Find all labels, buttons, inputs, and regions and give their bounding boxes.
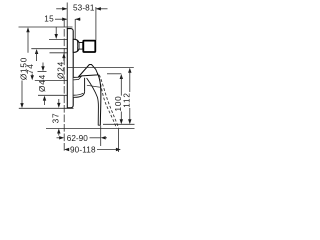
node E11 sleeve bottom ext bbox=[50, 52, 68, 54]
lever blade tip bbox=[98, 124, 100, 126]
escutcheon plate side view bbox=[67, 29, 73, 108]
node E6 cap bottom ext bbox=[38, 94, 67, 96]
dim D150 bbox=[20, 27, 30, 108]
node E1 plate top ext bbox=[19, 26, 73, 28]
dim 53-81 bbox=[56, 3, 107, 12]
svg-text:Ø44: Ø44 bbox=[38, 74, 47, 92]
svg-text:15: 15 bbox=[44, 15, 54, 24]
cap junction edge bbox=[73, 65, 89, 78]
svg-text:53-81: 53-81 bbox=[73, 3, 95, 12]
lever blade white fill bbox=[86, 78, 101, 125]
node E3 lever top ext bbox=[67, 67, 133, 69]
cap right edge bbox=[84, 78, 86, 92]
lever blade left edge bbox=[87, 78, 99, 125]
svg-text:Ø24: Ø24 bbox=[56, 61, 65, 79]
node E7 plate bottom ext bbox=[19, 107, 74, 109]
dim 15 bbox=[44, 15, 80, 24]
cap junction inner line bbox=[73, 69, 88, 80]
node V4 connector end ext bbox=[95, 7, 97, 41]
svg-text:90-118: 90-118 bbox=[70, 146, 96, 155]
node V1 wall reference dashed bbox=[63, 20, 65, 153]
lever knob bbox=[78, 65, 97, 78]
dim 37 bbox=[52, 99, 61, 136]
node L9 closed lever tip ext bbox=[103, 123, 135, 125]
cap bottom curve inner bbox=[74, 93, 84, 95]
svg-text:74: 74 bbox=[26, 63, 35, 74]
blade inner line bbox=[87, 85, 100, 87]
handle escutcheon cap bbox=[73, 77, 84, 97]
svg-text:37: 37 bbox=[52, 113, 61, 124]
sleeve inner line bbox=[76, 40, 78, 51]
node V2 plate face ext bbox=[66, 3, 68, 29]
open lever position dashed outer edge bbox=[99, 75, 118, 128]
outlet neck bbox=[79, 43, 83, 50]
dim D24 bbox=[55, 27, 66, 79]
node E10 sleeve top ext bbox=[49, 38, 73, 40]
node E8 open lever tip ext bbox=[46, 127, 135, 129]
svg-text:112: 112 bbox=[123, 92, 132, 107]
dim D44 bbox=[38, 63, 47, 106]
node E2 neck top ext bbox=[31, 48, 67, 50]
dim 90-118 bbox=[64, 146, 121, 155]
svg-text:62-90: 62-90 bbox=[67, 134, 88, 143]
dim 62-90 bbox=[57, 134, 108, 143]
node V6 open lever reach ext bbox=[117, 129, 119, 152]
node V5 closed lever reach ext bbox=[100, 126, 102, 146]
node E4 knob corner ext bbox=[107, 73, 121, 75]
dim 74 bbox=[26, 49, 38, 80]
cap bottom curve outer bbox=[74, 92, 85, 98]
dim 112 bbox=[123, 68, 132, 124]
hose connector end bbox=[83, 41, 95, 52]
node E5 junction corner ext bbox=[35, 79, 74, 81]
dim 100 bbox=[114, 74, 123, 124]
node V3 sleeve face ext bbox=[74, 19, 76, 40]
extension lines bbox=[19, 3, 135, 153]
shower outlet sleeve bbox=[73, 39, 79, 52]
node E12 knob base ext stub bbox=[38, 71, 47, 73]
lever blade right edge bbox=[98, 73, 101, 125]
open lever position dashed inner edge bbox=[98, 75, 116, 128]
